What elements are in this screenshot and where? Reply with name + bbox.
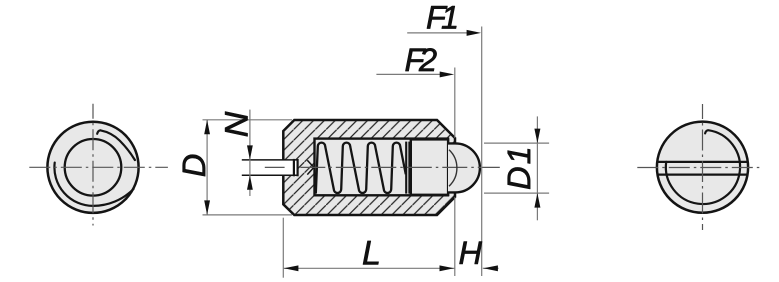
dimension F2 — [376, 48, 454, 276]
slot edges — [242, 160, 298, 175]
right end view: body outer circle — [657, 122, 748, 213]
right end view: spring spiral arc — [666, 130, 740, 204]
left end view: spring spiral arc upper — [97, 130, 135, 160]
spring end coil double line — [406, 142, 409, 194]
dimension N — [225, 110, 253, 196]
body outline — [283, 120, 455, 215]
thrust pin collar — [411, 139, 448, 194]
dimension H — [459, 242, 498, 272]
dimension F1 — [407, 6, 482, 276]
left end view: pin hole inner circle — [65, 139, 122, 196]
dimension D1 — [484, 116, 549, 220]
spring coil — [316, 143, 406, 194]
left end view: vertical centerline — [92, 104, 94, 226]
left end view: spring spiral arc lower — [54, 163, 133, 206]
thrust pin with spherical end — [448, 143, 480, 192]
drill cone at cavity left end — [307, 160, 314, 174]
right end view: horizontal centerline — [637, 167, 763, 169]
dimension L — [283, 218, 454, 278]
slot floor double line — [294, 159, 298, 176]
right end view: vertical centerline — [702, 104, 704, 230]
section view body hatching — [283, 120, 455, 215]
left end view: horizontal centerline — [29, 166, 168, 168]
right end view: slot edges — [657, 162, 748, 175]
slot white interior — [285, 161, 297, 174]
dimension D — [183, 120, 292, 215]
left end view: body outer circle — [47, 122, 138, 213]
section view body fill — [283, 120, 455, 215]
section view horizontal centerline — [265, 166, 500, 168]
spring cavity outline — [315, 139, 449, 196]
pin sphere tangent arc — [449, 150, 457, 186]
